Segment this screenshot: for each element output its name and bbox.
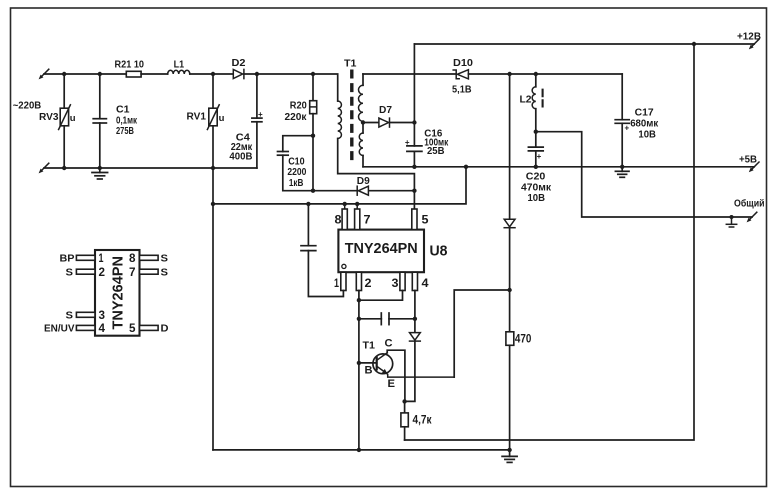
- svg-text:7: 7: [364, 213, 371, 227]
- wire collector: [387, 350, 405, 401]
- svg-text:+: +: [258, 110, 263, 119]
- svg-text:S: S: [66, 310, 74, 322]
- svg-text:D: D: [161, 323, 169, 335]
- pin 1 U8: [341, 272, 346, 290]
- capacitor C17: [615, 74, 629, 167]
- node collector 4,7k junction: [402, 399, 406, 403]
- inductor L2 core: [542, 89, 544, 108]
- svg-text:S: S: [161, 266, 169, 278]
- wire top rail left: [44, 73, 126, 75]
- node BP line pin7: [355, 202, 359, 206]
- node feedback cap right: [413, 317, 417, 321]
- capacitor C1: [93, 74, 106, 168]
- wire emitter: [388, 375, 455, 378]
- capacitor C16: [405, 138, 422, 167]
- svg-text:275В: 275В: [116, 125, 134, 137]
- pin 8 U8: [342, 204, 347, 230]
- label C1 value: [116, 104, 138, 138]
- pin 5 U8: [412, 209, 417, 230]
- svg-text:EN/UV: EN/UV: [44, 323, 75, 335]
- svg-text:470: 470: [515, 334, 532, 346]
- svg-text:220к: 220к: [285, 111, 308, 123]
- pin 4 U8: [412, 272, 417, 290]
- transformer T1 secondary winding upper: [359, 74, 364, 121]
- svg-text:E: E: [388, 378, 396, 390]
- svg-text:R21 10: R21 10: [115, 59, 145, 71]
- node secondary center tap: [361, 120, 365, 124]
- node bottom rail pin2 line: [357, 448, 361, 452]
- wire feedback emitter to 470: [454, 290, 509, 377]
- node bottom rail RV1: [211, 166, 215, 170]
- diode D7: [363, 118, 414, 127]
- node +5V rail feedback tap: [464, 165, 468, 169]
- node D10 line L2: [534, 72, 538, 76]
- DIP8 pin 3: [76, 312, 95, 317]
- node D10 line x509: [507, 72, 511, 76]
- svg-text:L2: L2: [520, 94, 532, 106]
- wire pin 2 chain: [358, 291, 360, 450]
- wire BP line: [213, 167, 466, 204]
- DIP8 pin 4: [76, 325, 95, 330]
- input terminal bottom: [39, 163, 49, 173]
- svg-text:RV3: RV3: [39, 111, 59, 123]
- svg-text:~220В: ~220В: [13, 100, 42, 112]
- transformer T1 core: [350, 70, 353, 162]
- wire D9 line: [313, 190, 414, 192]
- node base on pin2 line: [357, 361, 361, 365]
- wire top rail R21 to L1: [141, 73, 168, 75]
- pin 7 U8: [355, 204, 360, 230]
- inductor L2: [532, 74, 536, 132]
- svg-text:5,1В: 5,1В: [452, 84, 472, 96]
- svg-text:25В: 25В: [427, 145, 445, 157]
- DIP8 package box: [95, 250, 140, 336]
- node D7 cathode: [412, 120, 416, 124]
- resistor R21: [126, 71, 141, 77]
- node BP line pin8: [343, 202, 347, 206]
- label C10 value: [287, 156, 306, 189]
- wire bottom rail: [213, 449, 510, 451]
- svg-text:C: C: [385, 338, 393, 350]
- DIP8 pin 2: [76, 269, 95, 274]
- DIP8 pin 1: [76, 255, 95, 260]
- svg-text:7: 7: [129, 267, 136, 279]
- label C16 value: [424, 128, 449, 157]
- capacitor C10: [278, 136, 314, 191]
- terminal +12V: [749, 39, 759, 49]
- svg-text:2: 2: [365, 276, 372, 290]
- diode in 470 branch: [504, 219, 515, 331]
- capacitor C20: [528, 132, 543, 167]
- node top rail R20: [311, 72, 315, 76]
- svg-text:5: 5: [129, 323, 136, 335]
- node BP line cap: [306, 202, 310, 206]
- chassis tack at common: [726, 217, 736, 227]
- ground at bottom rail: [502, 450, 517, 463]
- node bottom rail RV3: [62, 166, 66, 170]
- svg-text:D9: D9: [357, 175, 370, 187]
- svg-text:10В: 10В: [528, 192, 546, 204]
- node common line tack: [730, 215, 734, 219]
- wire secondary top line: [363, 73, 456, 75]
- wire right spine from +12V to 4,7k: [405, 44, 694, 440]
- svg-text:+: +: [537, 152, 542, 161]
- wire +5V rail: [363, 166, 754, 168]
- wire pin 4 chain: [414, 291, 416, 333]
- DIP8 pin 7: [140, 269, 159, 274]
- node C16 bottom on +5V rail: [412, 165, 416, 169]
- svg-text:+12В: +12В: [737, 31, 761, 43]
- node feedback cap left: [357, 317, 361, 321]
- ground at C17: [615, 167, 629, 178]
- resistor 4,7k: [401, 401, 408, 440]
- svg-text:BP: BP: [60, 253, 75, 265]
- wire common branch from L2 bottom: [536, 132, 752, 217]
- svg-text:8: 8: [129, 253, 136, 265]
- wire top rail L1 to D2: [190, 73, 234, 75]
- varistor RV3: [59, 74, 76, 168]
- svg-text:1: 1: [334, 276, 339, 290]
- transistor T1 circle: [373, 353, 393, 375]
- node top rail RV3: [62, 72, 66, 76]
- svg-text:2: 2: [99, 267, 106, 279]
- resistor 470: [506, 332, 514, 450]
- svg-text:u: u: [70, 113, 76, 124]
- svg-text:10В: 10В: [638, 129, 656, 141]
- wire +12V vertical: [413, 44, 415, 146]
- wire bottom rail: [44, 167, 257, 169]
- input terminal top (~220V line): [39, 69, 49, 79]
- svg-text:400В: 400В: [229, 151, 252, 163]
- wire pin 3 jog: [359, 291, 403, 301]
- node R20 bottom on D9 line: [311, 189, 315, 193]
- node D9 line drain: [412, 189, 416, 193]
- svg-text:B: B: [365, 365, 373, 377]
- wire RV1 down left spine: [212, 126, 214, 450]
- label R20 value: [285, 100, 308, 123]
- svg-text:T1: T1: [363, 340, 376, 352]
- node top rail C4: [255, 72, 259, 76]
- pin 2 U8: [356, 272, 361, 290]
- svg-text:TNY264PN: TNY264PN: [111, 256, 127, 330]
- transformer T1 secondary winding lower: [359, 121, 363, 167]
- diode D9: [357, 186, 368, 195]
- wire +12V rail: [414, 43, 754, 45]
- diode D2: [233, 69, 244, 78]
- node pin2 jog: [357, 298, 361, 302]
- ground at C1: [92, 168, 108, 179]
- svg-text:RV1: RV1: [187, 111, 207, 123]
- svg-text:D10: D10: [453, 57, 473, 69]
- svg-text:+: +: [405, 138, 410, 147]
- svg-text:D2: D2: [232, 57, 246, 69]
- wire 470 branch vertical top: [509, 74, 511, 219]
- svg-text:L1: L1: [174, 59, 185, 71]
- DIP8 pin 8: [140, 255, 159, 260]
- node C17 bottom on +5V rail: [620, 165, 624, 169]
- node +12V rail right: [692, 42, 696, 46]
- svg-text:D7: D7: [379, 104, 392, 116]
- DIP8 pin 5: [140, 325, 159, 330]
- bypass capacitor at BP: [301, 204, 343, 297]
- node R20 C10 branch: [311, 134, 315, 138]
- node top rail RV1: [211, 72, 215, 76]
- label C17 value: [630, 107, 659, 141]
- feedback capacitor pins 2-4: [359, 313, 415, 325]
- svg-text:5: 5: [422, 213, 429, 227]
- wire base: [359, 362, 377, 364]
- svg-text:S: S: [66, 266, 74, 278]
- node 470 branch feedback: [507, 288, 511, 292]
- node bottom rail ground: [507, 448, 511, 452]
- pin 3 U8: [400, 272, 405, 290]
- svg-text:T1: T1: [344, 58, 357, 70]
- node C20 bottom on +5V rail: [534, 165, 538, 169]
- svg-text:3: 3: [392, 276, 399, 290]
- svg-text:R20: R20: [290, 100, 307, 112]
- label C20 value: [521, 171, 552, 205]
- svg-text:+: +: [625, 124, 630, 133]
- svg-text:1кВ: 1кВ: [289, 177, 304, 189]
- svg-text:3: 3: [99, 310, 106, 322]
- IC U8 box: [338, 230, 424, 273]
- zener diode D10: [453, 70, 622, 79]
- pin 1 marker circle U8: [342, 264, 346, 268]
- svg-text:S: S: [161, 253, 169, 265]
- node bottom rail C1: [98, 166, 102, 170]
- svg-text:TNY264PN: TNY264PN: [345, 241, 418, 257]
- inductor L1: [168, 70, 190, 74]
- svg-text:4: 4: [422, 276, 429, 290]
- svg-text:U8: U8: [430, 244, 448, 260]
- varistor RV1: [207, 74, 224, 130]
- svg-text:Общий: Общий: [734, 198, 765, 210]
- capacitor C4: [252, 74, 263, 168]
- terminal +5V: [749, 162, 759, 172]
- node BP line left: [211, 202, 215, 206]
- transformer T1 primary winding: [338, 101, 415, 208]
- svg-text:4,7к: 4,7к: [413, 415, 432, 427]
- svg-text:8: 8: [335, 213, 342, 227]
- resistor R20: [310, 74, 317, 191]
- svg-text:4: 4: [99, 323, 106, 335]
- svg-text:1: 1: [99, 253, 104, 265]
- terminal common: [747, 212, 757, 222]
- svg-text:+5В: +5В: [739, 154, 757, 166]
- node L2 bottom: [534, 130, 538, 134]
- label C4 value: [229, 132, 252, 163]
- svg-text:u: u: [219, 113, 225, 124]
- node top rail C1: [98, 72, 102, 76]
- diode in pin 4 chain: [405, 333, 421, 402]
- wire top rail D2 to transformer: [244, 74, 338, 101]
